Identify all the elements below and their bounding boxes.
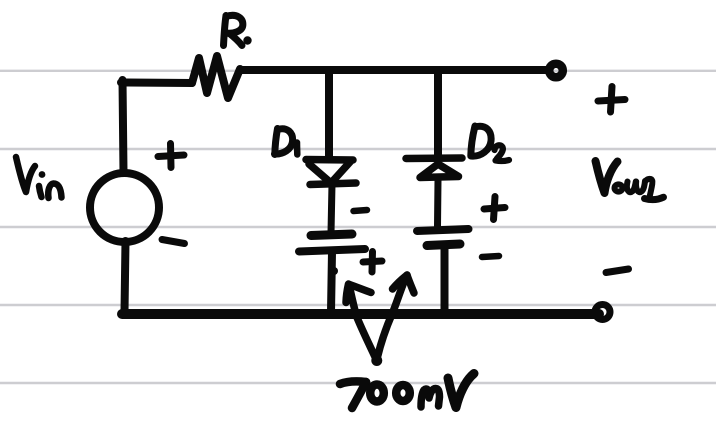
voltage source Vin (circle) xyxy=(90,173,159,242)
label R1 xyxy=(224,15,252,45)
polarity - (battery B2) xyxy=(482,256,499,257)
wire battery B1 to bottom rail xyxy=(331,252,332,312)
polarity - (between D1 and battery) xyxy=(354,210,368,211)
polarity + (between D2 and battery) xyxy=(484,197,505,220)
wire bottom rail xyxy=(122,309,599,319)
polarity - (Vin) xyxy=(162,240,185,244)
wire D2 to battery xyxy=(434,180,442,226)
label 700mV xyxy=(340,374,474,409)
terminal + output (open circle) xyxy=(549,64,563,78)
wire top-left vertical from source to corner xyxy=(123,80,124,172)
diode D1 (pointing down) xyxy=(306,160,356,185)
resistor R1 xyxy=(192,56,240,98)
label D1 xyxy=(275,129,298,155)
polarity + (battery B1) xyxy=(363,252,382,273)
label Vout xyxy=(596,161,664,200)
battery B1 (short bar) xyxy=(311,234,352,236)
wire top rail xyxy=(240,66,546,74)
wire below source to bottom rail xyxy=(125,241,126,312)
wire D1 branch from top rail xyxy=(325,70,333,157)
label Vin xyxy=(16,157,62,198)
wire D1 to battery xyxy=(331,184,332,233)
wire D2 branch from top rail xyxy=(434,70,442,156)
diode D2 (pointing up) xyxy=(406,158,462,178)
battery B1 (long bar) xyxy=(299,249,365,252)
terminal - output (open circle) xyxy=(595,305,610,320)
polarity - (output) xyxy=(606,269,629,273)
polarity + (Vin) xyxy=(158,144,184,168)
wire top-left horizontal to resistor xyxy=(121,79,192,88)
battery B2 (short bar) xyxy=(427,244,460,246)
wire battery B2 to bottom rail xyxy=(441,247,449,312)
polarity + (output) xyxy=(598,87,625,113)
battery B2 (long bar) xyxy=(417,229,469,231)
arrow to battery B1 xyxy=(346,284,377,360)
arrow to battery B2 xyxy=(377,275,414,359)
label D2 xyxy=(471,126,509,161)
